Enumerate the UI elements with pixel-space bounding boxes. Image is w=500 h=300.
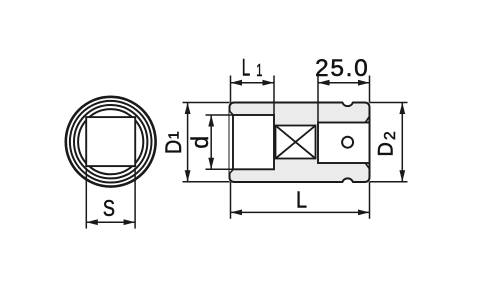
svg-text:2: 2 xyxy=(382,131,399,140)
svg-text:1: 1 xyxy=(256,62,262,81)
svg-text:S: S xyxy=(103,196,115,222)
svg-text:D: D xyxy=(374,142,398,156)
svg-text:1: 1 xyxy=(166,131,183,139)
svg-text:D: D xyxy=(162,140,186,154)
svg-text:d: d xyxy=(186,136,213,149)
svg-text:25.0: 25.0 xyxy=(315,55,369,82)
svg-text:L: L xyxy=(242,55,250,81)
svg-text:L: L xyxy=(296,186,307,213)
